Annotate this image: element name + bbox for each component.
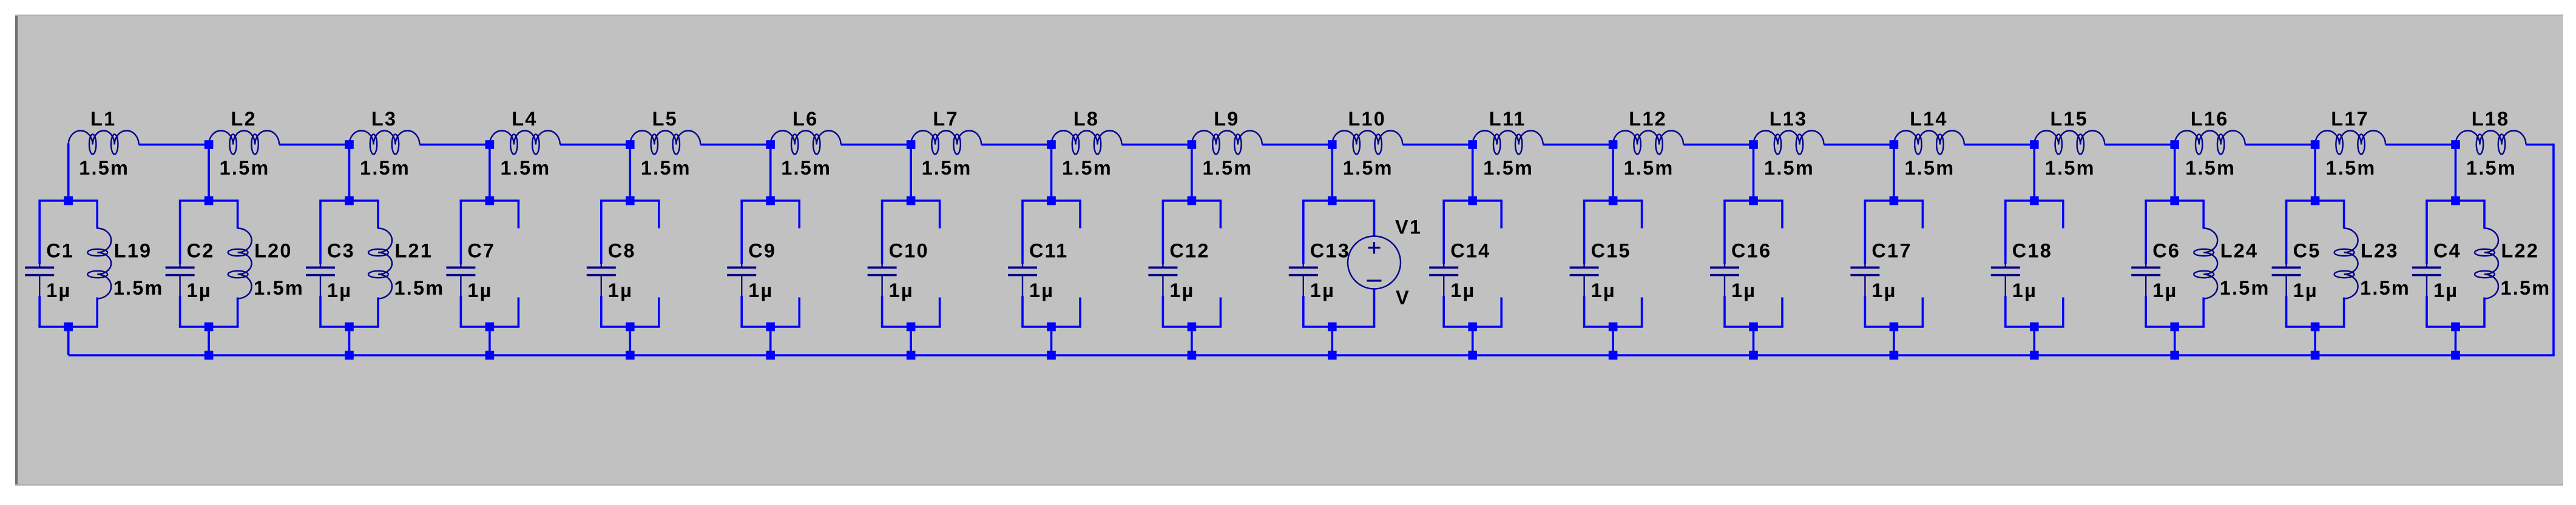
wire shunt loop left upper lead (column 16) xyxy=(2145,201,2147,264)
inductor L16 (series, 1.5m) xyxy=(2175,131,2245,155)
inductor L19 (shunt, 1.5m) xyxy=(87,229,111,299)
svg-text:1.5m: 1.5m xyxy=(1062,157,1112,179)
svg-text:C14: C14 xyxy=(1450,240,1490,262)
wire right stub lower (column 7) xyxy=(939,298,941,327)
svg-text:L22: L22 xyxy=(2501,240,2540,262)
wire shunt loop left lower (column 3) xyxy=(319,296,322,327)
wire drop from top node (column 13) xyxy=(1753,144,1755,201)
inductor L7 (series, 1.5m) xyxy=(911,131,981,155)
wire drop from top node (column 10) xyxy=(1331,144,1334,201)
svg-text:1.5m: 1.5m xyxy=(1202,157,1253,179)
wire right stub lower (column 17) xyxy=(2343,298,2345,327)
svg-text:1.5m: 1.5m xyxy=(2045,157,2095,179)
wire drop to rail (column 10) xyxy=(1331,327,1334,355)
window border left edge xyxy=(15,15,18,486)
wire right stub upper (column 14) xyxy=(1922,201,1924,229)
wire shunt loop bottom (column 1) xyxy=(38,326,98,328)
svg-text:1.5m: 1.5m xyxy=(500,157,550,179)
wire drop to rail (column 5) xyxy=(629,327,632,355)
wire top right to edge xyxy=(2526,144,2554,146)
inductor L17 (series, 1.5m) xyxy=(2315,131,2385,155)
wire right stub upper (column 15) xyxy=(2062,201,2064,229)
wire right stub upper (column 9) xyxy=(1220,201,1222,229)
node junction rail (column 10) xyxy=(1328,351,1337,360)
node junction loop top (column 10) xyxy=(1328,196,1337,206)
capacitor C16 (1µ) xyxy=(1710,264,1739,296)
svg-text:V1: V1 xyxy=(1395,216,1422,238)
node junction loop bottom (column 16) xyxy=(2170,323,2179,332)
wire right stub lower (column 18) xyxy=(2483,298,2486,327)
svg-text:1.5m: 1.5m xyxy=(394,277,445,299)
wire shunt loop bottom (column 12) xyxy=(1583,326,1643,328)
wire shunt loop left lower (column 8) xyxy=(1021,296,1024,327)
wire right stub lower (column 4) xyxy=(518,298,520,327)
wire drop to rail (column 6) xyxy=(769,327,772,355)
wire drop from top node (column 8) xyxy=(1050,144,1053,201)
wire right stub lower (column 14) xyxy=(1922,298,1924,327)
wire shunt loop top (column 9) xyxy=(1162,199,1222,202)
node junction rail (column 5) xyxy=(626,351,635,360)
wire shunt loop top (column 10) xyxy=(1302,199,1375,202)
node junction rail (column 4) xyxy=(485,351,495,360)
wire right stub upper (column 7) xyxy=(939,201,941,229)
wire top horizontal xyxy=(2104,144,2174,146)
capacitor C17 (1µ) xyxy=(1850,264,1879,296)
wire shunt loop bottom (column 8) xyxy=(1021,326,1081,328)
svg-text:L9: L9 xyxy=(1214,108,1239,130)
wire right stub upper (column 8) xyxy=(1079,201,1081,229)
wire right stub upper (column 2) xyxy=(237,201,239,229)
svg-text:L2: L2 xyxy=(231,108,256,130)
wire shunt loop top (column 6) xyxy=(740,199,800,202)
node junction loop top (column 5) xyxy=(626,196,635,206)
wire right stub lower (column 11) xyxy=(1500,298,1503,327)
svg-text:C12: C12 xyxy=(1169,240,1209,262)
svg-text:L10: L10 xyxy=(1348,108,1386,130)
capacitor C12 (1µ) xyxy=(1148,264,1177,296)
inductor L22 (shunt, 1.5m) xyxy=(2475,229,2498,299)
wire shunt loop left lower (column 2) xyxy=(179,296,181,327)
wire shunt loop left upper lead (column 13) xyxy=(1723,201,1726,264)
wire shunt loop bottom (column 3) xyxy=(319,326,379,328)
inductor L20 (shunt, 1.5m) xyxy=(228,229,252,299)
svg-text:L8: L8 xyxy=(1073,108,1099,130)
svg-text:1.5m: 1.5m xyxy=(1624,157,1674,179)
wire shunt loop left upper lead (column 8) xyxy=(1021,201,1024,264)
wire shunt loop top (column 8) xyxy=(1021,199,1081,202)
wire shunt loop top (column 17) xyxy=(2285,199,2345,202)
wire shunt loop left upper lead (column 15) xyxy=(2004,201,2007,264)
node junction top wire (column 12) xyxy=(1609,140,1618,149)
node junction loop bottom (column 15) xyxy=(2030,323,2039,332)
wire shunt loop bottom (column 18) xyxy=(2426,326,2486,328)
wire shunt loop left lower (column 6) xyxy=(740,296,743,327)
svg-text:1µ: 1µ xyxy=(889,279,914,301)
node junction loop top (column 3) xyxy=(345,196,354,206)
node junction loop bottom (column 8) xyxy=(1047,323,1056,332)
node junction loop top (column 7) xyxy=(907,196,916,206)
voltage source V1 xyxy=(1348,236,1401,289)
node junction loop bottom (column 2) xyxy=(205,323,214,332)
wire shunt loop bottom (column 11) xyxy=(1442,326,1503,328)
wire shunt loop bottom (column 6) xyxy=(740,326,800,328)
svg-text:C15: C15 xyxy=(1591,240,1631,262)
wire right stub upper (column 6) xyxy=(798,201,800,229)
svg-text:C1: C1 xyxy=(46,240,74,262)
inductor L15 (series, 1.5m) xyxy=(2034,131,2104,155)
capacitor C14 (1µ) xyxy=(1429,264,1458,296)
inductor L12 (series, 1.5m) xyxy=(1613,131,1683,155)
inductor L2 (series, 1.5m) xyxy=(209,131,279,155)
wire drop from top node (column 3) xyxy=(348,144,351,201)
node junction loop top (column 11) xyxy=(1468,196,1477,206)
svg-text:1.5m: 1.5m xyxy=(113,277,164,299)
wire shunt loop left upper lead (column 2) xyxy=(179,201,181,264)
svg-text:1µ: 1µ xyxy=(467,279,492,301)
svg-text:1.5m: 1.5m xyxy=(220,157,270,179)
node junction rail (column 8) xyxy=(1047,351,1056,360)
svg-text:1.5m: 1.5m xyxy=(1483,157,1533,179)
wire top horizontal xyxy=(1543,144,1613,146)
wire right stub lower (column 3) xyxy=(377,298,379,327)
wire drop from top node (column 18) xyxy=(2455,144,2457,201)
wire shunt loop left lower (column 5) xyxy=(600,296,603,327)
wire right stub lower (column 9) xyxy=(1220,298,1222,327)
wire right stub lower from source (column 10) xyxy=(1373,289,1376,327)
svg-text:L7: L7 xyxy=(933,108,958,130)
wire shunt loop bottom (column 16) xyxy=(2145,326,2205,328)
wire right stub upper (column 1) xyxy=(96,201,98,229)
node junction top wire (column 5) xyxy=(626,140,635,149)
capacitor C1 (1µ) xyxy=(25,264,54,296)
inductor L3 (series, 1.5m) xyxy=(350,131,420,155)
wire shunt loop left lower (column 4) xyxy=(460,296,462,327)
svg-text:L17: L17 xyxy=(2331,108,2369,130)
svg-text:L21: L21 xyxy=(395,240,433,262)
wire drop from top node (column 11) xyxy=(1472,144,1474,201)
svg-text:C4: C4 xyxy=(2433,240,2461,262)
wire right stub upper (column 16) xyxy=(2202,201,2205,229)
wire shunt loop top (column 12) xyxy=(1583,199,1643,202)
wire top horizontal xyxy=(700,144,770,146)
wire top horizontal xyxy=(1402,144,1472,146)
wire right edge vertical xyxy=(2552,144,2555,355)
node junction top wire (column 7) xyxy=(907,140,916,149)
wire shunt loop bottom (column 7) xyxy=(881,326,941,328)
node junction top wire (column 18) xyxy=(2451,140,2460,149)
svg-text:C16: C16 xyxy=(1731,240,1771,262)
wire drop to rail (column 12) xyxy=(1612,327,1614,355)
wire shunt loop top (column 14) xyxy=(1864,199,1924,202)
inductor L18 (series, 1.5m) xyxy=(2456,131,2526,155)
wire shunt loop top (column 16) xyxy=(2145,199,2205,202)
wire shunt loop left lower (column 14) xyxy=(1864,296,1867,327)
wire shunt loop bottom (column 5) xyxy=(600,326,660,328)
node junction loop top (column 6) xyxy=(766,196,775,206)
svg-text:1µ: 1µ xyxy=(2293,279,2318,301)
wire shunt loop bottom (column 9) xyxy=(1162,326,1222,328)
wire shunt loop left lower (column 11) xyxy=(1442,296,1445,327)
svg-text:L23: L23 xyxy=(2361,240,2399,262)
node junction loop bottom (column 13) xyxy=(1749,323,1758,332)
wire right stub lower (column 16) xyxy=(2202,298,2205,327)
wire top horizontal xyxy=(1683,144,1753,146)
wire top horizontal xyxy=(1824,144,1894,146)
svg-text:L15: L15 xyxy=(2050,108,2088,130)
capacitor C7 (1µ) xyxy=(446,264,475,296)
svg-text:L20: L20 xyxy=(254,240,292,262)
inductor L1 (series, 1.5m) xyxy=(69,131,139,155)
capacitor C13 (1µ) xyxy=(1289,264,1318,296)
svg-text:L4: L4 xyxy=(512,108,537,130)
node junction loop top (column 2) xyxy=(205,196,214,206)
svg-text:L18: L18 xyxy=(2472,108,2510,130)
node junction loop bottom (column 17) xyxy=(2311,323,2320,332)
wire shunt loop top (column 5) xyxy=(600,199,660,202)
wire right stub lower (column 2) xyxy=(237,298,239,327)
wire drop to rail (column 14) xyxy=(1893,327,1895,355)
wire right stub lower (column 15) xyxy=(2062,298,2064,327)
svg-text:1µ: 1µ xyxy=(2012,279,2037,301)
wire top horizontal xyxy=(2245,144,2315,146)
wire shunt loop bottom (column 10) xyxy=(1302,326,1375,328)
node junction top wire (column 4) xyxy=(485,140,495,149)
node junction loop top (column 1) xyxy=(64,196,73,206)
wire drop from top node (column 16) xyxy=(2174,144,2176,201)
svg-text:1µ: 1µ xyxy=(608,279,633,301)
wire right stub lower (column 13) xyxy=(1781,298,1783,327)
wire shunt loop left lower (column 18) xyxy=(2426,296,2428,327)
node junction loop top (column 12) xyxy=(1609,196,1618,206)
node junction rail (column 17) xyxy=(2311,351,2320,360)
svg-text:L24: L24 xyxy=(2220,240,2259,262)
svg-text:1.5m: 1.5m xyxy=(254,277,304,299)
node junction loop top (column 18) xyxy=(2451,196,2460,206)
inductor L10 (series, 1.5m) xyxy=(1332,131,1402,155)
svg-text:C6: C6 xyxy=(2152,240,2180,262)
wire drop to rail (column 2) xyxy=(208,327,210,355)
svg-text:C17: C17 xyxy=(1871,240,1912,262)
capacitor C8 (1µ) xyxy=(587,264,616,296)
wire shunt loop bottom (column 14) xyxy=(1864,326,1924,328)
node junction rail (column 9) xyxy=(1188,351,1197,360)
capacitor C15 (1µ) xyxy=(1570,264,1599,296)
node junction loop top (column 14) xyxy=(1890,196,1899,206)
wire shunt loop left lower (column 13) xyxy=(1723,296,1726,327)
node junction loop bottom (column 10) xyxy=(1328,323,1337,332)
node junction loop bottom (column 14) xyxy=(1890,323,1899,332)
svg-text:C9: C9 xyxy=(748,240,776,262)
wire drop from top node (column 6) xyxy=(769,144,772,201)
inductor L11 (series, 1.5m) xyxy=(1473,131,1543,155)
wire shunt loop left upper lead (column 5) xyxy=(600,201,603,264)
wire shunt loop left upper lead (column 6) xyxy=(740,201,743,264)
inductor L24 (shunt, 1.5m) xyxy=(2194,229,2217,299)
wire right stub lower (column 12) xyxy=(1641,298,1643,327)
svg-text:1µ: 1µ xyxy=(1310,279,1335,301)
svg-text:1.5m: 1.5m xyxy=(2360,277,2410,299)
wire shunt loop bottom (column 17) xyxy=(2285,326,2345,328)
svg-text:V: V xyxy=(1396,287,1410,309)
wire top horizontal xyxy=(2385,144,2455,146)
inductor L6 (series, 1.5m) xyxy=(771,131,841,155)
wire shunt loop bottom (column 4) xyxy=(460,326,520,328)
node junction top wire (column 13) xyxy=(1749,140,1758,149)
wire shunt loop top (column 15) xyxy=(2004,199,2064,202)
inductor L23 (shunt, 1.5m) xyxy=(2334,229,2358,299)
inductor L4 (series, 1.5m) xyxy=(490,131,560,155)
node junction rail (column 7) xyxy=(907,351,916,360)
wire shunt loop left lower (column 16) xyxy=(2145,296,2147,327)
svg-text:1.5m: 1.5m xyxy=(79,157,129,179)
svg-text:1.5m: 1.5m xyxy=(360,157,410,179)
svg-text:1.5m: 1.5m xyxy=(1764,157,1814,179)
node junction rail (column 15) xyxy=(2030,351,2039,360)
capacitor C2 (1µ) xyxy=(166,264,195,296)
window border top edge xyxy=(15,15,2563,16)
svg-text:C8: C8 xyxy=(608,240,636,262)
wire shunt loop left upper lead (column 3) xyxy=(319,201,322,264)
wire shunt loop top (column 7) xyxy=(881,199,941,202)
wire shunt loop left lower (column 12) xyxy=(1583,296,1586,327)
wire drop to rail (column 16) xyxy=(2174,327,2176,355)
svg-text:C5: C5 xyxy=(2293,240,2321,262)
wire right stub upper (column 11) xyxy=(1500,201,1503,229)
node junction top wire (column 9) xyxy=(1188,140,1197,149)
wire right stub upper (column 13) xyxy=(1781,201,1783,229)
wire right stub upper (column 17) xyxy=(2343,201,2345,229)
wire shunt loop left upper lead (column 17) xyxy=(2285,201,2288,264)
svg-text:L19: L19 xyxy=(114,240,152,262)
svg-text:1µ: 1µ xyxy=(2433,279,2458,301)
node junction rail (column 16) xyxy=(2170,351,2179,360)
svg-text:1.5m: 1.5m xyxy=(1904,157,1955,179)
wire top horizontal xyxy=(841,144,911,146)
wire shunt loop left lower (column 15) xyxy=(2004,296,2007,327)
svg-text:1µ: 1µ xyxy=(1871,279,1896,301)
wire right stub lower (column 6) xyxy=(798,298,800,327)
inductor L21 (shunt, 1.5m) xyxy=(368,229,392,299)
node junction rail (column 18) xyxy=(2451,351,2460,360)
wire drop to rail (column 9) xyxy=(1191,327,1193,355)
node junction top wire (column 15) xyxy=(2030,140,2039,149)
wire shunt loop left upper lead (column 9) xyxy=(1162,201,1165,264)
svg-text:1.5m: 1.5m xyxy=(922,157,972,179)
capacitor C6 (1µ) xyxy=(2131,264,2160,296)
svg-text:1µ: 1µ xyxy=(2152,279,2177,301)
node junction rail (column 6) xyxy=(766,351,775,360)
wire shunt loop left upper lead (column 18) xyxy=(2426,201,2428,264)
wire right stub upper (column 12) xyxy=(1641,201,1643,229)
wire shunt loop bottom (column 2) xyxy=(179,326,239,328)
wire drop from top node (column 12) xyxy=(1612,144,1614,201)
wire top horizontal xyxy=(981,144,1051,146)
node junction rail (column 11) xyxy=(1468,351,1477,360)
wire top horizontal xyxy=(139,144,209,146)
svg-text:1µ: 1µ xyxy=(187,279,212,301)
capacitor C18 (1µ) xyxy=(1991,264,2020,296)
svg-text:1µ: 1µ xyxy=(1169,279,1194,301)
wire shunt loop top (column 1) xyxy=(38,199,98,202)
node junction loop bottom (column 12) xyxy=(1609,323,1618,332)
svg-text:1µ: 1µ xyxy=(327,279,352,301)
node junction rail (column 14) xyxy=(1890,351,1899,360)
node junction top wire (column 2) xyxy=(205,140,214,149)
inductor L13 (series, 1.5m) xyxy=(1754,131,1824,155)
wire drop to rail (column 13) xyxy=(1753,327,1755,355)
wire shunt loop top (column 13) xyxy=(1723,199,1783,202)
svg-text:1.5m: 1.5m xyxy=(781,157,831,179)
svg-text:1µ: 1µ xyxy=(1450,279,1475,301)
node junction top wire (column 16) xyxy=(2170,140,2179,149)
capacitor C11 (1µ) xyxy=(1008,264,1037,296)
wire top horizontal xyxy=(1964,144,2034,146)
capacitor C9 (1µ) xyxy=(727,264,756,296)
wire shunt loop top (column 18) xyxy=(2426,199,2486,202)
wire right stub upper (column 3) xyxy=(377,201,379,229)
wire shunt loop left lower (column 10) xyxy=(1302,296,1305,327)
node junction top wire (column 11) xyxy=(1468,140,1477,149)
svg-text:C11: C11 xyxy=(1029,240,1068,262)
svg-text:C3: C3 xyxy=(327,240,355,262)
svg-text:C7: C7 xyxy=(467,240,495,262)
node junction loop top (column 9) xyxy=(1188,196,1197,206)
svg-text:L11: L11 xyxy=(1489,108,1526,130)
node junction loop top (column 4) xyxy=(485,196,495,206)
capacitor C10 (1µ) xyxy=(868,264,897,296)
wire top horizontal xyxy=(420,144,490,146)
inductor L5 (series, 1.5m) xyxy=(630,131,700,155)
wire shunt loop left upper lead (column 12) xyxy=(1583,201,1586,264)
svg-text:1µ: 1µ xyxy=(46,279,71,301)
wire right stub lower (column 8) xyxy=(1079,298,1081,327)
node junction loop bottom (column 5) xyxy=(626,323,635,332)
svg-text:C10: C10 xyxy=(889,240,929,262)
wire shunt loop left upper lead (column 11) xyxy=(1442,201,1445,264)
svg-text:1.5m: 1.5m xyxy=(2185,157,2236,179)
node junction loop bottom (column 4) xyxy=(485,323,495,332)
node junction loop top (column 13) xyxy=(1749,196,1758,206)
wire drop to rail (column 4) xyxy=(488,327,491,355)
svg-text:1µ: 1µ xyxy=(748,279,773,301)
wire drop to rail (column 11) xyxy=(1472,327,1474,355)
wire shunt loop top (column 11) xyxy=(1442,199,1503,202)
wire drop from top node (column 1) xyxy=(67,144,70,201)
wire top horizontal xyxy=(1122,144,1192,146)
node junction loop bottom (column 7) xyxy=(907,323,916,332)
wire drop from top node (column 7) xyxy=(910,144,912,201)
node junction rail (column 2) xyxy=(205,351,214,360)
wire shunt loop left lower (column 17) xyxy=(2285,296,2288,327)
window border bottom edge xyxy=(15,484,2563,486)
wire drop from top node (column 4) xyxy=(488,144,491,201)
node junction rail (column 12) xyxy=(1609,351,1618,360)
svg-text:1.5m: 1.5m xyxy=(2466,157,2517,179)
node junction top wire (column 10) xyxy=(1328,140,1337,149)
inductor L8 (series, 1.5m) xyxy=(1052,131,1122,155)
wire right stub lower (column 1) xyxy=(96,298,98,327)
svg-text:L16: L16 xyxy=(2191,108,2229,130)
node junction loop bottom (column 9) xyxy=(1188,323,1197,332)
wire shunt loop top (column 2) xyxy=(179,199,239,202)
wire right stub lower (column 5) xyxy=(658,298,660,327)
wire drop from top node (column 2) xyxy=(208,144,210,201)
wire drop from top node (column 5) xyxy=(629,144,632,201)
wire shunt loop left upper lead (column 14) xyxy=(1864,201,1867,264)
svg-text:L6: L6 xyxy=(793,108,818,130)
wire shunt loop left lower (column 1) xyxy=(38,296,41,327)
node junction loop bottom (column 6) xyxy=(766,323,775,332)
